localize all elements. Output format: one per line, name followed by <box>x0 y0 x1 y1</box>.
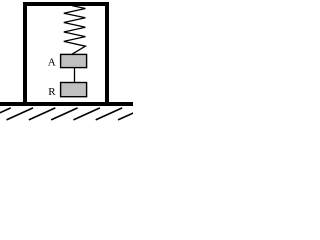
background <box>0 0 133 121</box>
ground hatching <box>0 108 145 120</box>
svg-text:A: A <box>48 57 56 69</box>
stand left leg <box>23 2 27 102</box>
mass A box <box>61 54 87 67</box>
ground line <box>0 102 133 106</box>
mass R box <box>61 83 87 97</box>
svg-text:R: R <box>48 86 56 98</box>
stand top bar <box>23 2 109 6</box>
connector wire A-R <box>74 68 76 83</box>
stand right leg <box>105 2 109 102</box>
spring <box>64 6 86 55</box>
